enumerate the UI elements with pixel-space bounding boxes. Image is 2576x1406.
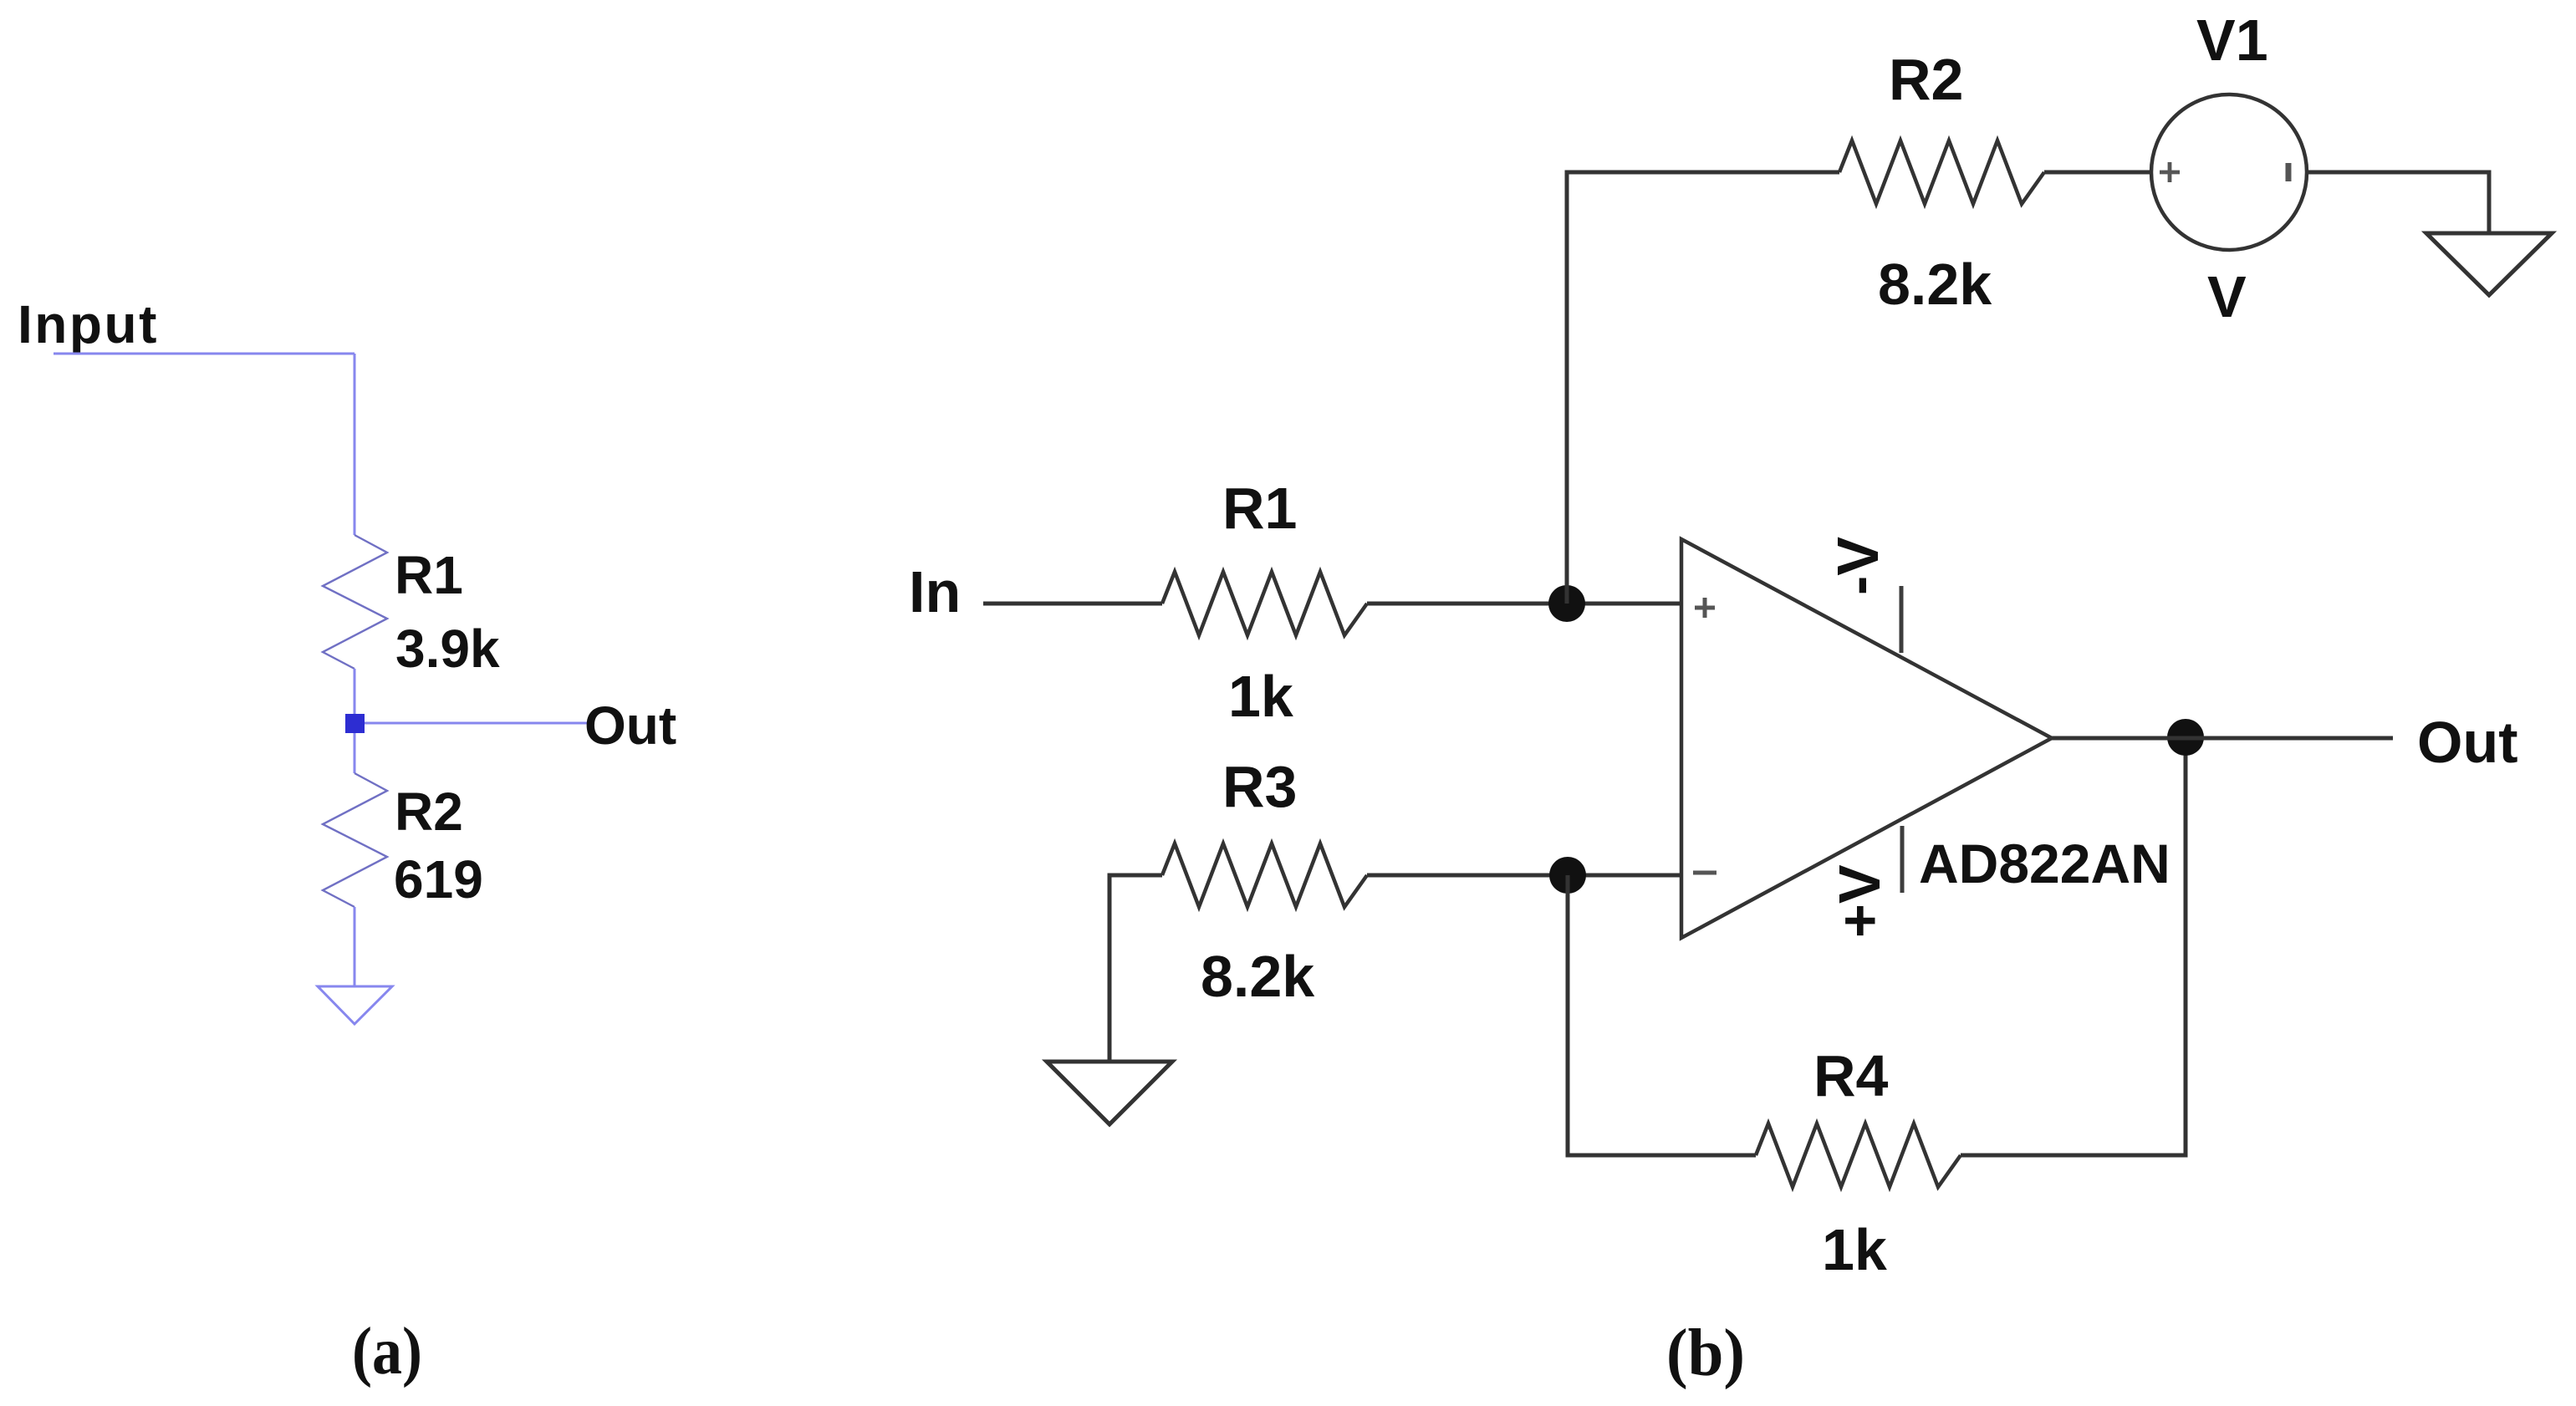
label AD822AN	[1919, 833, 2170, 894]
V1 plus marker	[2160, 162, 2180, 182]
resistor R1 (3.9k)	[323, 535, 387, 669]
resistor R2 (8.2k)	[1839, 140, 2044, 204]
label V1	[2196, 8, 2268, 73]
node A (+ input junction)	[1548, 585, 1585, 622]
label R1	[1222, 476, 1297, 541]
svg-text:R2: R2	[1889, 47, 1963, 112]
node Out label	[2417, 710, 2518, 775]
node Out junction (blue square)	[345, 714, 365, 733]
wire input horizontal	[54, 353, 355, 355]
wire node B down to feedback rail	[1568, 875, 1756, 1155]
wire R1 to node	[354, 669, 356, 714]
value 619	[394, 849, 483, 909]
label R2	[1889, 47, 1963, 112]
svg-text:R1: R1	[395, 545, 463, 605]
svg-text:Input: Input	[18, 294, 159, 354]
label R2	[395, 782, 463, 842]
resistor R4 (1k)	[1756, 1123, 1961, 1187]
op-amp - input marker	[1693, 871, 1716, 875]
op-amp -V power pin	[1900, 586, 1904, 653]
node B (- input junction)	[1549, 857, 1586, 894]
V1 minus marker	[2286, 163, 2292, 181]
wire node A up to top rail	[1567, 172, 1839, 604]
svg-text:+V: +V	[1827, 864, 1892, 938]
value 1k	[1228, 664, 1293, 729]
svg-text:In: In	[909, 559, 961, 624]
node In label	[909, 559, 961, 624]
svg-text:(b): (b)	[1666, 1317, 1745, 1390]
svg-text:8.2k: 8.2k	[1201, 944, 1314, 1009]
svg-text:(a): (a)	[352, 1315, 422, 1388]
ground (R3)	[1047, 1062, 1172, 1124]
value V	[2207, 264, 2247, 329]
svg-text:V1: V1	[2196, 8, 2268, 73]
op-amp + input marker	[1695, 598, 1715, 618]
svg-text:1k: 1k	[1228, 664, 1293, 729]
svg-text:R1: R1	[1222, 476, 1297, 541]
op-amp U1 AD822AN triangle	[1681, 539, 2052, 938]
op-amp +V power pin	[1900, 826, 1905, 893]
resistor R1 (1k)	[1162, 572, 1367, 635]
voltage source V1 (circle)	[2151, 94, 2307, 250]
wire R2 to V1	[2044, 171, 2151, 175]
wire op-amp output to Out	[2052, 736, 2393, 741]
label R4	[1813, 1043, 1889, 1108]
resistor R2 (619)	[323, 773, 387, 907]
label R3	[1222, 754, 1297, 819]
svg-text:Out: Out	[2417, 710, 2518, 775]
wire V1 to corner	[2307, 172, 2489, 233]
ground (top right)	[2426, 233, 2552, 295]
wire R1 to op-amp + input	[1367, 602, 1681, 606]
svg-text:1k: 1k	[1822, 1217, 1887, 1282]
svg-text:R3: R3	[1222, 754, 1297, 819]
wire In to R1	[983, 602, 1162, 606]
svg-text:8.2k: 8.2k	[1878, 252, 1992, 317]
caption (a)	[352, 1315, 422, 1388]
svg-text:AD822AN: AD822AN	[1919, 833, 2170, 894]
wire ground to R3	[1109, 875, 1162, 1061]
value 3.9k	[395, 619, 500, 679]
svg-text:R2: R2	[395, 782, 463, 842]
node Out label	[584, 695, 676, 756]
svg-text:V: V	[2207, 264, 2247, 329]
node C (output junction)	[2167, 719, 2204, 756]
svg-text:-V: -V	[1825, 537, 1890, 595]
label +V (rotated)	[1827, 864, 1892, 938]
ground (a)	[318, 986, 392, 1024]
svg-text:619: 619	[394, 849, 483, 909]
wire node to Out	[365, 722, 587, 725]
wire R4 up to output	[1961, 737, 2186, 1155]
wire R3 to op-amp - input	[1367, 874, 1681, 878]
svg-text:3.9k: 3.9k	[395, 619, 500, 679]
value 8.2k	[1878, 252, 1992, 317]
value 8.2k	[1201, 944, 1314, 1009]
wire node to R2	[354, 733, 356, 773]
resistor R3 (8.2k)	[1162, 843, 1367, 907]
svg-text:Out: Out	[584, 695, 676, 756]
node Input label	[18, 294, 159, 354]
value 1k	[1822, 1217, 1887, 1282]
caption (b)	[1666, 1317, 1745, 1390]
label -V (rotated)	[1825, 537, 1890, 595]
wire input vertical	[354, 354, 356, 535]
svg-text:R4: R4	[1813, 1043, 1889, 1108]
wire R2 to ground	[354, 907, 356, 986]
label R1	[395, 545, 463, 605]
